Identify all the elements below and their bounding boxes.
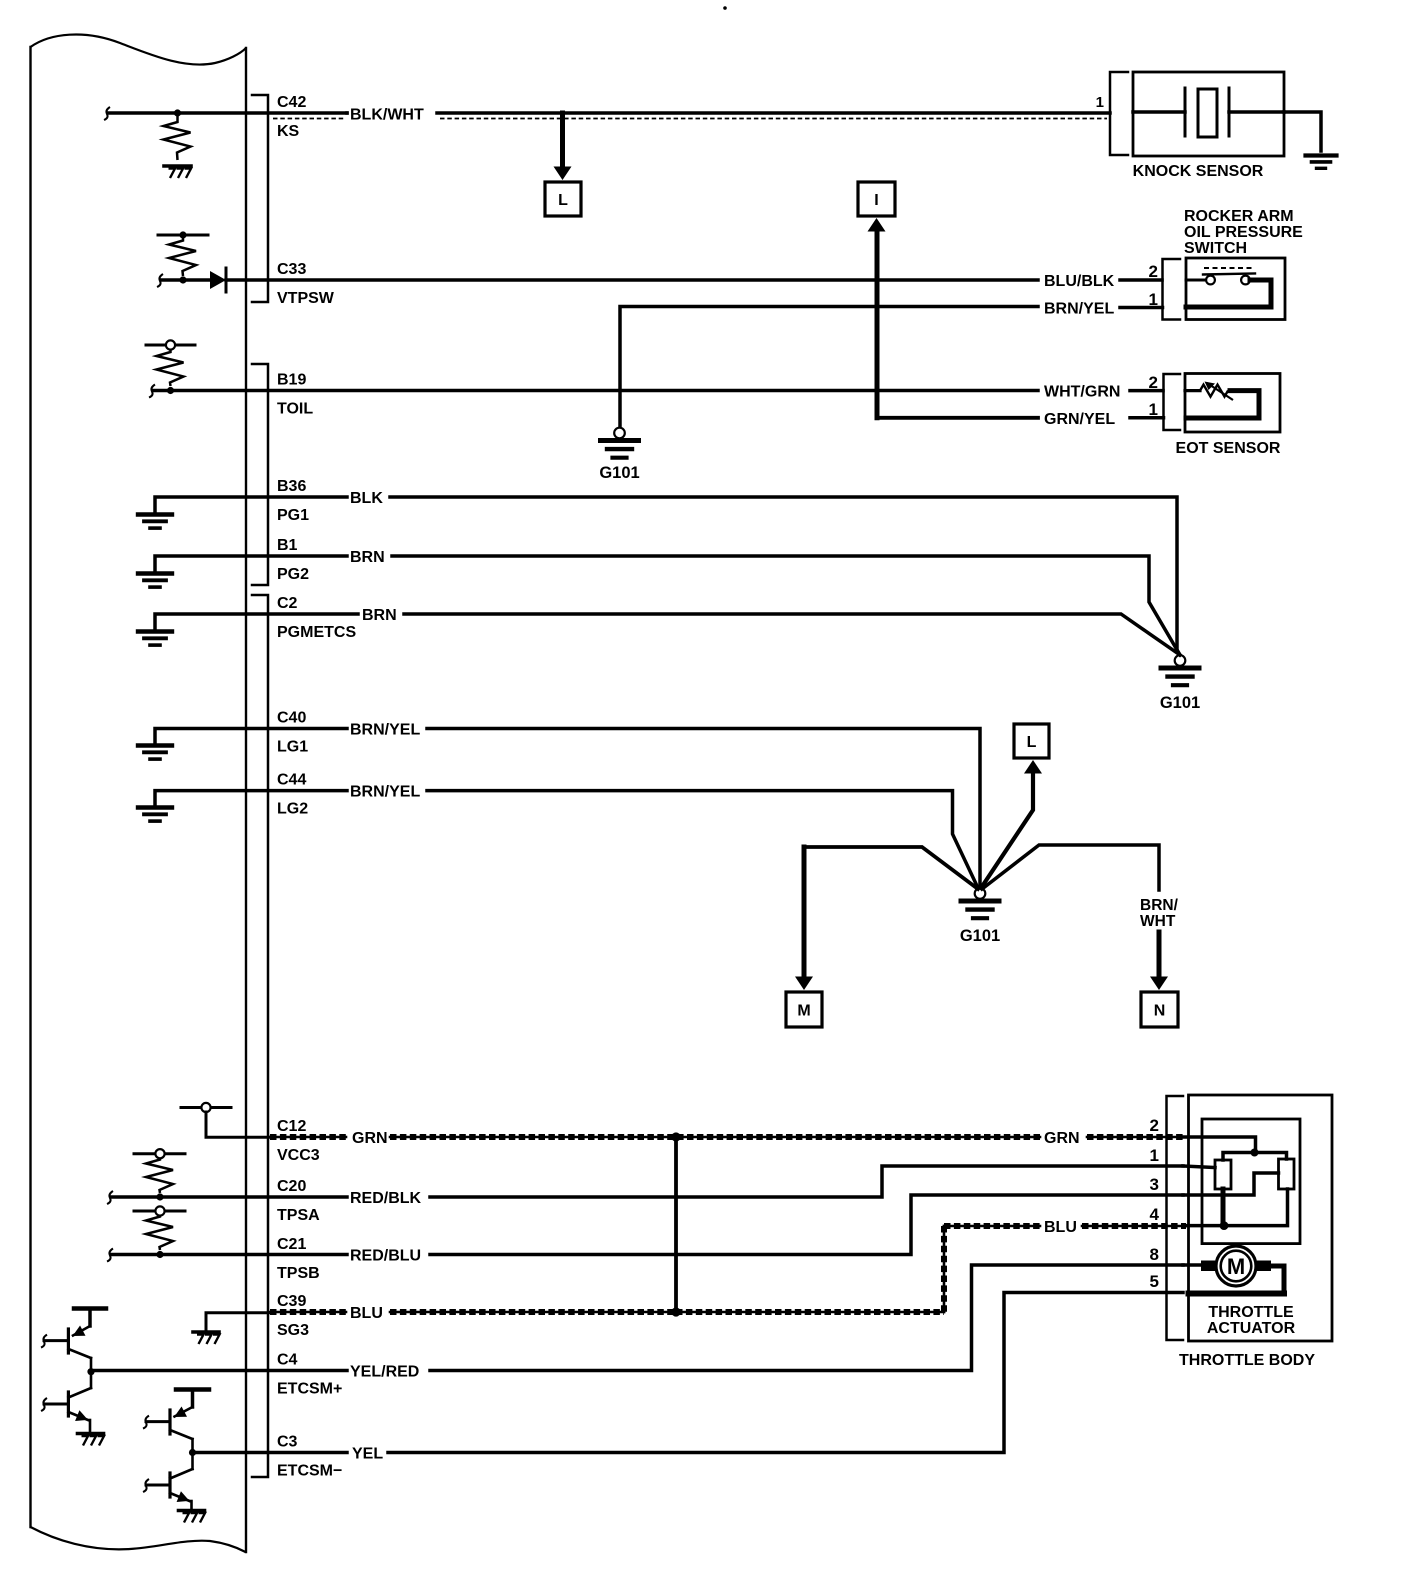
wire C21 internal with tick: [107, 1249, 347, 1262]
svg-text:RED/BLK: RED/BLK: [350, 1190, 422, 1207]
svg-text:ACTUATOR: ACTUATOR: [1207, 1320, 1296, 1337]
svg-text:M: M: [1227, 1254, 1245, 1279]
throttle pin 4 number: [1150, 1205, 1160, 1224]
internal supply rail bar (TPSB): [134, 1210, 185, 1213]
wire C39 BLU (dashed junction to corner): [676, 1311, 944, 1314]
resistor R-VTPSW (internal): [169, 237, 196, 276]
ECM connector bracket (C2...C3 group): [252, 595, 268, 1477]
svg-text:B1: B1: [277, 537, 298, 554]
throttle motor right terminal: [1257, 1261, 1271, 1272]
transistor Q4 (ETCSM- low side): [143, 1453, 193, 1509]
wire BLU/BLK stub to switch: [1120, 278, 1162, 282]
wire C4 YEL/RED to throttle pin 8: [430, 1265, 1183, 1371]
diode D1 (internal): [210, 268, 226, 292]
THROTTLE ACTUATOR label: [1207, 1304, 1296, 1337]
wire C33 BLU/BLK (long segment): [226, 278, 1038, 282]
wire BLU vertical (dashed): [943, 1226, 946, 1312]
wire label BRN: [350, 549, 385, 566]
wire label BLK: [350, 490, 383, 507]
svg-text:M: M: [797, 1003, 810, 1020]
svg-text:WHT/GRN: WHT/GRN: [1044, 384, 1120, 401]
node ETCSM+ junction dot: [87, 1368, 94, 1375]
pin B36 label: [277, 478, 309, 524]
knock sensor crystal right plate: [1228, 88, 1231, 136]
svg-text:5: 5: [1150, 1272, 1159, 1291]
svg-text:C39: C39: [277, 1293, 306, 1310]
throttle body connector bracket: [1167, 1096, 1184, 1340]
svg-text:C40: C40: [277, 710, 306, 727]
wire B36 BLK to ground G101: [390, 497, 1180, 655]
junction dot on C20 wire: [156, 1193, 163, 1200]
arrowhead into connector L: [554, 167, 572, 181]
wire label BRN/WHT: [1140, 897, 1179, 930]
svg-text:KS: KS: [277, 123, 300, 140]
wire C44 BRN/YEL (left segment): [0, 0, 1, 1]
internal SG3 ground lead: [206, 1313, 272, 1330]
svg-text:BLU/BLK: BLU/BLK: [1044, 273, 1115, 290]
wire C40 BRN/YEL (left segment): [0, 0, 1, 1]
wire C20 RED/BLK to throttle pin 1: [430, 1166, 1183, 1197]
internal ground lead (PG2): [155, 556, 347, 573]
supply tap circle (TPSB): [155, 1206, 164, 1215]
knock sensor ground symbol: [1306, 156, 1337, 169]
wire C42 BLK/WHT (to knock sensor): [437, 111, 1110, 115]
internal supply rail bar (VCC3): [181, 1106, 231, 1109]
internal ground lead (LG2): [155, 791, 347, 807]
throttle body case: [1189, 1095, 1333, 1341]
shield dashed line (left segment): [273, 118, 346, 120]
svg-text:TPSA: TPSA: [277, 1207, 320, 1224]
EOT thermistor zigzag: [1185, 382, 1233, 401]
wire BLU (dashed to throttle pin 4): [1082, 1225, 1186, 1228]
ground G101 (left): [599, 428, 639, 482]
svg-text:I: I: [874, 192, 878, 209]
connector symbol M: [786, 992, 822, 1027]
wire label BRN (C2): [362, 607, 397, 624]
ECM/PCM housing torn top edge: [31, 34, 247, 64]
ECM/PCM housing torn bottom edge: [31, 1527, 246, 1552]
ROCKER ARM OIL PRESSURE SWITCH label: [1184, 208, 1303, 257]
resistor R-TOIL (internal): [157, 350, 184, 386]
connector symbol I: [858, 182, 895, 216]
branch wire BRN/WHT to connector N (upper): [982, 845, 1159, 890]
chassis ground under Q2: [78, 1434, 105, 1446]
wire label BRN/YEL (C44): [350, 784, 420, 801]
supply tap circle (B19): [166, 340, 175, 349]
svg-text:ETCSM+: ETCSM+: [277, 1381, 342, 1398]
pin C44 label: [277, 772, 308, 818]
throttle pin 5 number: [1150, 1272, 1159, 1291]
svg-text:B36: B36: [277, 478, 306, 495]
actuator resistor-top link: [1223, 1153, 1287, 1161]
pin C42 label: [277, 94, 306, 140]
connector symbol L (top): [545, 182, 581, 216]
junction dot actuator bottom: [1220, 1221, 1229, 1230]
wire C39 BLU (dashed to junction): [390, 1311, 676, 1314]
wire C20 internal with tick: [107, 1191, 347, 1204]
wire C3 internal: [193, 1451, 348, 1455]
throttle motor M1: [1216, 1246, 1256, 1286]
connector symbol N: [1141, 992, 1178, 1027]
svg-text:C21: C21: [277, 1236, 306, 1253]
transistor Q1 (ETCSM+ high side): [41, 1309, 106, 1372]
knock sensor crystal left plate: [1184, 88, 1187, 136]
svg-text:BRN/YEL: BRN/YEL: [350, 722, 420, 739]
wire label BRN/YEL (rocker): [1044, 301, 1114, 318]
svg-text:C33: C33: [277, 261, 306, 278]
wire C12 GRN (left segment, dashed): [270, 1136, 346, 1139]
junction dot GRN/sensor-ground link (top): [671, 1132, 680, 1141]
knock sensor ground wire: [1284, 112, 1321, 151]
pin C40 label: [277, 710, 308, 756]
EOT SENSOR label: [1176, 440, 1281, 457]
arrowhead into connector L (lower): [1024, 760, 1042, 774]
svg-text:C2: C2: [277, 595, 298, 612]
branch wire to connector L (lower): [981, 774, 1033, 888]
svg-text:BRN/YEL: BRN/YEL: [350, 784, 420, 801]
svg-text:BRN: BRN: [362, 607, 397, 624]
rocker switch blade: [1203, 274, 1255, 275]
svg-text:EOT SENSOR: EOT SENSOR: [1176, 440, 1281, 457]
arrowhead into connector M: [795, 977, 813, 991]
internal VCC3 lead: [206, 1112, 272, 1137]
wire C39 BLU (left segment, dashed): [270, 1311, 346, 1314]
svg-text:1: 1: [1150, 1146, 1159, 1165]
EOT pin 1 number: [1149, 400, 1158, 419]
rocker switch internal dashed link: [1204, 267, 1252, 269]
pin B19 label: [277, 372, 313, 418]
junction dot on C21 wire: [156, 1251, 163, 1258]
connector symbol L (lower): [1014, 724, 1049, 758]
svg-text:C44: C44: [277, 772, 306, 789]
svg-text:TPSB: TPSB: [277, 1265, 320, 1282]
wire BLU (dashed to label): [944, 1225, 1040, 1228]
wire label GRN (left): [352, 1130, 388, 1147]
throttle pin 2 number: [1150, 1116, 1159, 1135]
svg-text:SG3: SG3: [277, 1322, 309, 1339]
pin B1 label: [277, 537, 309, 583]
actuator pin 4 wire and resistor-bottom link: [1186, 1189, 1288, 1226]
wire C12 GRN (dashed to junction): [390, 1136, 1040, 1139]
wire GRN/YEL to connector I: [877, 233, 1038, 418]
actuator position sensor resistor (right): [1279, 1159, 1295, 1189]
transistor Q2 (ETCSM+ low side): [41, 1372, 91, 1431]
svg-text:N: N: [1154, 1003, 1166, 1020]
wire WHT/GRN stub to EOT: [1130, 389, 1163, 393]
internal supply rail bar (C33): [158, 234, 208, 237]
wire label RED/BLU: [350, 1248, 421, 1265]
EOT internal loop to pin 1: [1186, 391, 1259, 418]
svg-text:C3: C3: [277, 1434, 298, 1451]
wire C21 RED/BLU to throttle pin 3: [430, 1195, 1183, 1255]
ground G101 (center-right): [1160, 655, 1200, 712]
wire label BRN/YEL (C40): [350, 722, 420, 739]
ECM connector bracket (B19/B36/B1 group): [252, 364, 268, 585]
branch wire BRN/WHT (lower): [1157, 932, 1162, 977]
svg-text:C42: C42: [277, 94, 306, 111]
internal supply rail bar (B19): [146, 344, 195, 347]
svg-text:1: 1: [1096, 94, 1104, 111]
branch wire to connector M: [804, 847, 978, 977]
knock sensor case: [1133, 72, 1284, 156]
internal supply rail bar (TPSA): [134, 1152, 185, 1155]
svg-text:PG2: PG2: [277, 566, 309, 583]
branch wire down to connector L: [560, 113, 565, 168]
actuator pin 1 wire into left resistor: [1183, 1166, 1215, 1168]
wire C4 internal: [91, 1369, 347, 1373]
ground G101 (lower): [960, 888, 1000, 945]
rocker switch internal loop to pin 1: [1186, 280, 1271, 307]
svg-text:GRN: GRN: [1044, 1130, 1080, 1147]
internal ground symbol (LG1): [138, 746, 172, 760]
arrowhead into connector I: [868, 218, 886, 232]
internal ground symbol (PGMETCS): [138, 632, 172, 646]
svg-text:BLK/WHT: BLK/WHT: [350, 107, 424, 124]
ECM connector bracket (C42/C33 group): [252, 95, 268, 302]
svg-text:L: L: [558, 192, 568, 209]
svg-text:PG1: PG1: [277, 507, 309, 524]
svg-text:C12: C12: [277, 1118, 306, 1135]
junction dot actuator top: [1251, 1149, 1259, 1157]
actuator position sensor resistor (left): [1215, 1160, 1231, 1189]
wire label RED/BLK: [350, 1190, 422, 1207]
rocker arm oil pressure switch case: [1186, 258, 1285, 320]
internal knock-sense wire with end tick: [104, 107, 347, 120]
svg-text:BRN/: BRN/: [1140, 897, 1179, 914]
transistor Q3 (ETCSM- high side): [143, 1390, 209, 1453]
wire label BLU/BLK: [1044, 273, 1115, 290]
pin C4 label: [277, 1352, 342, 1398]
svg-text:G101: G101: [960, 927, 1000, 945]
svg-text:3: 3: [1150, 1175, 1159, 1194]
svg-text:GRN/YEL: GRN/YEL: [1044, 411, 1115, 428]
svg-text:VCC3: VCC3: [277, 1147, 320, 1164]
svg-text:GRN: GRN: [352, 1130, 388, 1147]
rocker switch connector bracket: [1163, 259, 1181, 320]
junction dot on C33 rail: [179, 231, 186, 238]
pin C39 label: [277, 1293, 309, 1339]
pin C2 label: [277, 595, 356, 641]
wire C44 BRN/YEL to ground G101: [427, 791, 978, 888]
wire label WHT/GRN: [1044, 384, 1120, 401]
shield dashed line (right segment): [440, 118, 1107, 120]
wire label BLU (right): [1044, 1219, 1077, 1236]
wire label BLU (left): [350, 1305, 383, 1322]
svg-text:B19: B19: [277, 372, 306, 389]
resistor R-KS (internal): [164, 116, 191, 160]
junction dot on C33 wire: [179, 276, 186, 283]
rocker switch pin 2 number: [1149, 262, 1158, 281]
internal ground lead (PGMETCS): [155, 614, 358, 631]
rocker switch contact b: [1241, 276, 1250, 285]
svg-text:LG2: LG2: [277, 801, 308, 818]
resistor R-TPSB (internal): [146, 1215, 173, 1250]
EOT sensor case: [1185, 374, 1280, 433]
wire label GRN (right): [1044, 1130, 1080, 1147]
wire B36 BLK (left segment): [0, 0, 1, 1]
throttle pin 8 number: [1150, 1245, 1159, 1264]
svg-text:VTPSW: VTPSW: [277, 290, 335, 307]
junction dot on B19 wire: [167, 387, 174, 394]
knock sensor wire from crystal: [1229, 110, 1284, 114]
ECM/PCM housing right edge (wire): [245, 48, 247, 1552]
junction dot on C42 internal wire: [174, 109, 181, 116]
wire C40 BRN/YEL to ground G101: [427, 729, 980, 889]
knock sensor pin 1 number: [1096, 94, 1104, 111]
svg-text:BLU: BLU: [1044, 1219, 1077, 1236]
rocker switch pin 1 number: [1149, 290, 1158, 309]
THROTTLE BODY label: [1179, 1352, 1315, 1369]
throttle pin 3 number: [1150, 1175, 1159, 1194]
wire B19 WHT/GRN (long segment): [149, 385, 1038, 398]
svg-text:2: 2: [1149, 262, 1158, 281]
svg-text:4: 4: [1150, 1205, 1160, 1224]
internal ground lead (LG1): [155, 729, 347, 746]
knock sensor crystal element: [1198, 89, 1217, 137]
svg-text:8: 8: [1150, 1245, 1159, 1264]
throttle pin 1 number: [1150, 1146, 1159, 1165]
svg-text:C4: C4: [277, 1352, 298, 1369]
wire C12 GRN (dashed to throttle pin 2): [1087, 1136, 1183, 1139]
svg-text:OIL PRESSURE: OIL PRESSURE: [1184, 224, 1303, 241]
svg-text:PGMETCS: PGMETCS: [277, 624, 356, 641]
ECM/PCM housing left edge (wire): [29, 47, 31, 1527]
knock sensor connector bracket: [1110, 72, 1128, 155]
EOT sensor connector bracket: [1164, 374, 1181, 430]
wire B1 BRN to ground G101: [392, 556, 1180, 655]
svg-text:BLU: BLU: [350, 1305, 383, 1322]
internal wire to diode with end tick: [157, 274, 210, 287]
throttle actuator case: [1202, 1119, 1300, 1244]
chassis ground under R-KS: [164, 166, 191, 178]
wire label BLK/WHT: [350, 107, 424, 124]
knock sensor wire to crystal: [1133, 110, 1185, 114]
svg-text:2: 2: [1149, 373, 1158, 392]
resistor R-TPSA (internal): [146, 1158, 173, 1193]
wire C2 BRN (left segment): [0, 0, 1, 1]
svg-text:G101: G101: [1160, 694, 1200, 712]
wire B1 BRN (left segment): [0, 0, 1, 1]
wire GRN/YEL stub from EOT pin 1: [1130, 416, 1164, 420]
wire C42 BLK/WHT (left segment): [345, 111, 349, 115]
svg-text:BLK: BLK: [350, 490, 383, 507]
pin C21 label: [277, 1236, 320, 1282]
actuator pin 3 wire into right resistor: [1183, 1173, 1279, 1195]
wire label YEL: [352, 1446, 383, 1463]
throttle motor return wire to pin 5: [1189, 1266, 1285, 1294]
wire BRN/YEL to ground G101: [620, 307, 1038, 429]
wire label GRN/YEL: [1044, 411, 1115, 428]
wire label YEL/RED: [350, 1364, 419, 1381]
svg-text:ROCKER ARM: ROCKER ARM: [1184, 208, 1294, 225]
throttle motor left terminal: [1183, 1261, 1215, 1272]
rocker switch contact a: [1206, 276, 1215, 285]
pin C20 label: [277, 1178, 320, 1224]
page registration dot: [723, 6, 727, 10]
svg-text:C20: C20: [277, 1178, 306, 1195]
junction dot GRN/sensor-ground link (bottom): [671, 1307, 680, 1316]
internal ground symbol (LG2): [138, 808, 172, 822]
svg-text:YEL: YEL: [352, 1446, 383, 1463]
svg-text:THROTTLE: THROTTLE: [1208, 1304, 1294, 1321]
svg-text:BRN/YEL: BRN/YEL: [1044, 301, 1114, 318]
svg-text:LG1: LG1: [277, 739, 308, 756]
svg-text:ETCSM−: ETCSM−: [277, 1463, 342, 1480]
sensor link wire (GRN to BLU): [674, 1137, 678, 1312]
svg-text:TOIL: TOIL: [277, 401, 313, 418]
actuator pin 2 wire to resistor tops: [1183, 1137, 1256, 1153]
svg-text:L: L: [1027, 734, 1037, 751]
supply tap circle (VCC3): [201, 1103, 210, 1112]
node ETCSM- junction dot: [189, 1449, 196, 1456]
svg-text:RED/BLU: RED/BLU: [350, 1248, 421, 1265]
EOT pin 2 number: [1149, 373, 1158, 392]
wire BRN/YEL stub from switch pin 1: [1120, 306, 1163, 310]
wire C3 YEL to throttle pin 5: [388, 1293, 1183, 1453]
svg-text:KNOCK SENSOR: KNOCK SENSOR: [1133, 163, 1264, 180]
svg-text:2: 2: [1150, 1116, 1159, 1135]
pin C12 label: [277, 1118, 320, 1164]
svg-text:THROTTLE BODY: THROTTLE BODY: [1179, 1352, 1315, 1369]
svg-text:WHT: WHT: [1140, 913, 1176, 930]
svg-text:YEL/RED: YEL/RED: [350, 1364, 419, 1381]
internal ground lead (PG1): [155, 497, 347, 514]
KNOCK SENSOR label: [1133, 163, 1264, 180]
internal ground symbol (PG1): [138, 515, 172, 529]
svg-text:BRN: BRN: [350, 549, 385, 566]
svg-text:G101: G101: [599, 464, 639, 482]
pin C3 label: [277, 1434, 342, 1480]
internal ground symbol (PG2): [138, 574, 172, 588]
pin C33 label: [277, 261, 335, 307]
wire C2 BRN to ground G101: [404, 614, 1180, 655]
arrowhead into connector N: [1150, 977, 1168, 991]
svg-text:SWITCH: SWITCH: [1184, 240, 1247, 257]
chassis ground under Q4: [179, 1511, 206, 1523]
chassis ground SG3 (internal): [193, 1332, 220, 1344]
rocker switch wire to contact: [1186, 279, 1206, 282]
supply tap circle (TPSA): [155, 1149, 164, 1158]
